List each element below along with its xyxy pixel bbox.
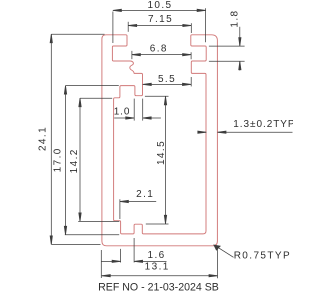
dimension 1.6 (bottom groove) [102,238,167,263]
svg-text:14.2: 14.2 [69,148,80,173]
svg-text:5.5: 5.5 [158,74,176,85]
svg-text:1.8: 1.8 [230,10,241,28]
svg-text:1.0: 1.0 [114,106,131,117]
svg-text:1.6: 1.6 [148,250,166,261]
svg-text:R0.75TYP: R0.75TYP [234,250,291,261]
dimension 10.5 (top) [113,8,206,43]
dimension 2.1 [120,199,156,219]
dimension 14.2 (left) [78,98,119,221]
svg-text:14.5: 14.5 [156,140,167,165]
dimension 5.5 [143,77,191,86]
dimension 17.0 (left) [64,86,119,235]
dimension 1.0 [114,99,161,121]
extrusion profile outline [102,35,217,246]
dimension 14.5 (inner) [145,96,169,224]
svg-text:2.1: 2.1 [136,189,154,200]
svg-text:17.0: 17.0 [52,147,63,172]
svg-text:7.15: 7.15 [148,14,173,25]
svg-text:10.5: 10.5 [147,0,172,11]
leader 1.3±0.2TYP (wall thickness) [198,131,293,133]
svg-text:24.1: 24.1 [37,126,48,151]
svg-text:6.8: 6.8 [150,44,168,55]
dimension 7.15 [128,22,191,33]
dimension 13.1 (overall width) [101,248,217,278]
dimension 1.8 (rotated, top right) [209,27,245,71]
svg-text:1.3±0.2TYP: 1.3±0.2TYP [233,119,293,130]
dimension 6.8 [132,51,191,59]
svg-text:REF NO - 21-03-2024 SB: REF NO - 21-03-2024 SB [98,281,219,293]
svg-text:13.1: 13.1 [145,262,170,273]
dimension 24.1 (left) [50,34,104,244]
leader R0.75TYP (corner radius) [214,245,234,257]
